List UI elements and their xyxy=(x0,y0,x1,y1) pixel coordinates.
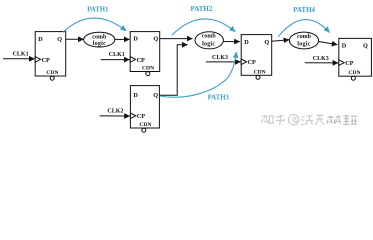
svg-text:CDN: CDN xyxy=(142,65,154,71)
wire U2.Q to comb logic 2 xyxy=(160,38,193,40)
svg-text:logic: logic xyxy=(297,42,310,48)
wire U3.Q to comb logic 3 xyxy=(272,40,290,42)
svg-text:CDN: CDN xyxy=(46,70,58,76)
svg-text:Q: Q xyxy=(363,43,368,50)
svg-text:comb: comb xyxy=(297,34,312,40)
svg-text:PATH1: PATH1 xyxy=(87,7,109,14)
flip-flop U3 (CLK3 domain) xyxy=(241,35,272,80)
wire U1.Q to comb logic 1 xyxy=(66,38,84,40)
svg-text:CLK1: CLK1 xyxy=(13,51,29,57)
wire CLK1 into U2.CP xyxy=(101,59,130,61)
svg-text:Q: Q xyxy=(153,35,158,42)
svg-text:CLK1: CLK1 xyxy=(109,52,125,58)
svg-text:logic: logic xyxy=(202,41,215,47)
svg-text:CDN: CDN xyxy=(348,70,360,76)
flip-flop U4 (CLK3 domain, last stage) xyxy=(339,38,372,80)
timing arc PATH3 (U5.Q to U3.D) xyxy=(160,52,236,97)
svg-text:CP: CP xyxy=(248,59,256,66)
svg-text:PATH4: PATH4 xyxy=(293,6,315,14)
wire comb logic 2 to U3.D xyxy=(223,41,239,43)
svg-text:CP: CP xyxy=(137,113,145,120)
svg-text:logic: logic xyxy=(93,41,106,47)
svg-text:CP: CP xyxy=(345,60,353,67)
wire U5.Q up to comb logic 2 xyxy=(160,45,188,95)
flip-flop U2 (CLK1 domain, second stage) xyxy=(130,32,160,76)
wire CLK3 into U4.CP xyxy=(305,62,338,64)
svg-text:CLK2: CLK2 xyxy=(107,109,123,115)
flip-flop U5 (CLK2 domain, bottom) xyxy=(130,86,159,133)
svg-text:Q: Q xyxy=(57,36,62,43)
svg-text:CLK3: CLK3 xyxy=(212,55,228,61)
watermark 知乎 @user (faux CJK glyphs, light gray) xyxy=(262,115,325,125)
comb logic 2 (combinational cloud) xyxy=(195,32,223,49)
wire CLK3 into U3.CP xyxy=(206,61,241,63)
svg-text:CP: CP xyxy=(137,57,145,64)
timing arc PATH2 (U2.Q to U3.D) xyxy=(172,19,235,35)
svg-text:D: D xyxy=(244,39,249,46)
svg-text:PATH2: PATH2 xyxy=(190,5,212,13)
timing arc PATH4 (U3.Q to U4.D) xyxy=(278,20,329,37)
svg-text:CLK3: CLK3 xyxy=(313,56,329,62)
svg-text:D: D xyxy=(342,43,347,50)
svg-text:CDN: CDN xyxy=(139,122,151,128)
svg-text:Q: Q xyxy=(153,92,158,99)
comb logic 1 (combinational cloud) xyxy=(84,32,115,47)
wire CLK2 into U5.CP xyxy=(100,115,130,117)
wire comb logic 1 to U2.D xyxy=(115,38,130,40)
svg-text:PATH3: PATH3 xyxy=(208,94,230,101)
wire CLK1 into U1.CP xyxy=(3,58,35,60)
svg-text:D: D xyxy=(133,35,138,42)
timing arc PATH1 (U1.Q to U2.D) xyxy=(63,18,126,32)
svg-text:comb: comb xyxy=(92,35,107,41)
wire comb logic 3 to U4.D xyxy=(319,42,338,45)
svg-text:comb: comb xyxy=(202,33,217,39)
svg-text:CDN: CDN xyxy=(254,69,266,75)
svg-text:D: D xyxy=(133,92,138,99)
svg-text:D: D xyxy=(38,36,43,43)
flip-flop U1 (CLK1 domain, first stage) xyxy=(35,32,65,81)
svg-text:Q: Q xyxy=(264,39,269,46)
svg-text:CP: CP xyxy=(42,57,50,64)
comb logic 3 (combinational cloud) xyxy=(289,32,318,49)
